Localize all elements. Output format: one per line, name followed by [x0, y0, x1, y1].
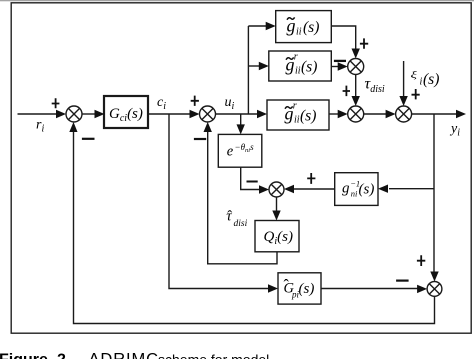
block G_ci: [104, 96, 148, 128]
wire: sum6 to Qi: [276, 197, 278, 211]
top grey screenshot edge: [0, 0, 474, 1]
svg-text:g: g: [342, 181, 350, 197]
svg-text:ii: ii: [295, 66, 301, 77]
svg-text:ni: ni: [351, 188, 358, 198]
block g2 (g~r ii): [269, 51, 332, 81]
wire: sum7 down and along bottom to sum1: [74, 131, 435, 324]
arrowhead into sum1: [56, 110, 66, 118]
arrowhead into g_ni (pointing left): [378, 185, 388, 193]
block g_ni^-1: [335, 173, 378, 206]
sign - at sum6 left: [247, 181, 258, 183]
arrowhead output y_i: [456, 110, 466, 118]
arrowhead into sum6 from left: [259, 185, 269, 193]
sign - at sum2 bottom: [194, 138, 206, 140]
svg-text:(s): (s): [359, 182, 375, 198]
sum junction 6 (disturbance estimate): [269, 182, 284, 197]
svg-text:(s): (s): [300, 108, 316, 125]
block G_pi hat: [278, 273, 321, 304]
wire: feed into g1: [248, 25, 267, 27]
svg-text:r: r: [294, 52, 298, 63]
wire: sum5 output y_i: [412, 113, 457, 115]
sign - at sum7 left: [396, 280, 409, 282]
wire: Qi feedback to sum2: [208, 131, 277, 264]
arrowhead into g2: [259, 62, 269, 70]
sign + at sum7 top: [417, 255, 425, 266]
sign - at sum1 bottom: [82, 138, 95, 140]
arrowhead into sum5 from xi: [399, 96, 407, 106]
arrowhead into sum3 from top: [352, 49, 360, 59]
arrowhead into sum6 from right (pointing left): [284, 185, 294, 193]
arrowhead into sum7 from left: [417, 285, 427, 293]
sign - at sum3 left: [334, 60, 346, 62]
wire: c_i branch down to Gpi: [169, 114, 269, 289]
sign + at sum2: [191, 96, 199, 106]
arrowhead into Gpi: [268, 284, 278, 292]
wire: sum1 to Gci: [82, 113, 95, 115]
wire: g1 out to sum3: [331, 26, 355, 50]
sign + at sum1: [52, 98, 60, 108]
svg-text:(s): (s): [301, 59, 317, 76]
sign + above sum4: [343, 86, 350, 97]
svg-text:ADRIMC: ADRIMC: [89, 351, 159, 359]
arrowhead into sum4 from sum3: [352, 96, 360, 106]
wire: y branch into g_ni: [389, 188, 434, 190]
block g1 (g~ii): [276, 11, 332, 43]
svg-text:e: e: [227, 144, 234, 160]
sign + at sum6 right: [307, 173, 315, 184]
wire: delay out to sum6: [241, 167, 260, 189]
wire: vertical feed up to g1,g2: [247, 26, 249, 114]
svg-text:r: r: [293, 101, 297, 112]
svg-text:disi: disi: [234, 219, 248, 229]
wire: sum4 to sum5: [364, 113, 387, 115]
svg-text:ii: ii: [294, 115, 300, 126]
svg-text:ˆ: ˆ: [227, 208, 232, 224]
arrowhead into delay block: [237, 124, 245, 134]
sum junction 4 (tau disi): [348, 106, 364, 122]
wire: g2 out to sum3: [331, 66, 339, 68]
svg-text:ii: ii: [296, 27, 302, 38]
arrowhead into sum5: [386, 110, 396, 118]
wire: g3 out to sum4: [329, 113, 338, 115]
wire: sum2 to block g3: [216, 113, 259, 115]
block delay e^-theta s: [218, 134, 261, 167]
wire: g_ni out to sum6: [294, 188, 335, 190]
arrowhead into g3: [257, 110, 267, 118]
sign + right of xi arrow: [412, 89, 420, 99]
svg-text:Figure2.: Figure2.: [0, 352, 70, 359]
wire: Gci to sum2: [148, 113, 190, 115]
arrowhead into sum4 from g3: [338, 110, 348, 118]
arrowhead into sum2: [190, 110, 200, 118]
wire: r_i input: [18, 113, 59, 115]
svg-text:(s): (s): [303, 19, 319, 36]
arrowhead into sum3 from g2: [338, 62, 348, 70]
block Q_i: [255, 221, 299, 252]
wire: y branch down to sum7 and g_ni: [433, 114, 435, 272]
wire: xi_i input: [403, 61, 405, 97]
svg-text:ˆ: ˆ: [284, 277, 290, 294]
arrowhead into sum7 from top: [430, 272, 438, 282]
svg-text:(s): (s): [423, 71, 439, 88]
svg-text:ξ: ξ: [411, 69, 418, 79]
arrowhead into sum1 from below: [69, 122, 77, 132]
sum junction 5 (xi): [396, 106, 412, 122]
sum junction 2 (u_i): [200, 106, 216, 122]
wire: sum3 to sum4: [355, 75, 357, 98]
arrowhead into g1: [266, 22, 276, 30]
arrowhead into Gci: [95, 110, 105, 118]
block g3 (g~r ii): [267, 100, 329, 130]
svg-text:Qi(s): Qi(s): [264, 229, 293, 247]
sign + at sum3 top: [360, 38, 368, 48]
sum junction 1 (r_i): [66, 106, 82, 122]
sum junction 7 (bottom right): [427, 282, 442, 297]
wire: Gpi out to sum7: [321, 288, 418, 290]
sum junction 3 (top tau): [348, 59, 364, 75]
wire: feed into g2: [248, 65, 260, 67]
svg-text:scheme for model: scheme for model: [158, 352, 269, 359]
svg-text:(s): (s): [299, 281, 315, 297]
arrowhead into Qi: [272, 211, 280, 221]
arrowhead into sum2 from below: [204, 122, 212, 132]
wire: branch down to delay block: [240, 114, 242, 125]
